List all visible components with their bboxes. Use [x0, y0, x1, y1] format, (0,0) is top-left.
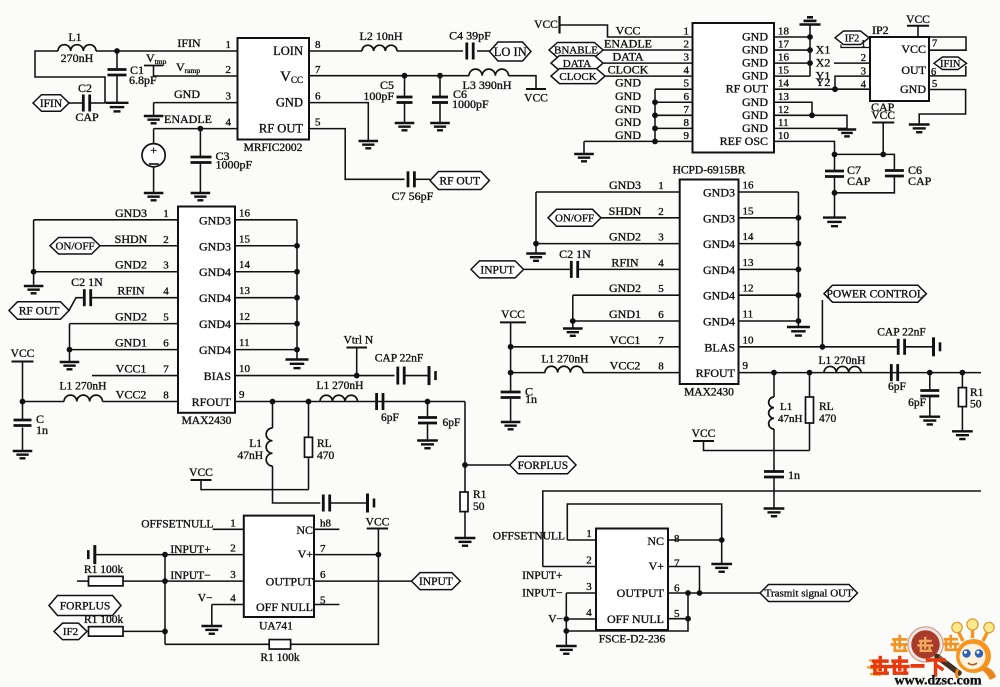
wire C7b bottom [834, 177, 836, 218]
wire U4 pin2 [601, 217, 680, 219]
svg-text:C4 39pF: C4 39pF [449, 29, 491, 43]
port INPUT hexagon out [412, 573, 461, 590]
wire U3 pin6 [70, 349, 179, 351]
wire C7 to hexagon [416, 178, 431, 180]
junction VCC osc [880, 152, 886, 158]
wire C1 stem [116, 51, 118, 70]
svg-text:4: 4 [658, 257, 664, 269]
power VCC flag U5 [366, 517, 390, 529]
svg-text:LO IN: LO IN [494, 45, 527, 59]
svg-text:12: 12 [743, 283, 754, 295]
svg-text:VCC2: VCC2 [610, 359, 641, 373]
svg-text:V−: V− [548, 614, 563, 626]
wire U4 pin7 [511, 346, 680, 348]
svg-text:7: 7 [658, 335, 664, 347]
svg-text:GND1: GND1 [115, 336, 147, 350]
inductor L2 [362, 45, 397, 51]
svg-text:UA741: UA741 [259, 621, 293, 633]
svg-text:INPUT−: INPUT− [170, 570, 210, 582]
wire C3 stem [199, 129, 201, 157]
svg-text:VCC: VCC [534, 19, 558, 31]
svg-text:CAP: CAP [908, 174, 932, 188]
svg-text:GND2: GND2 [609, 230, 641, 244]
svg-text:VCC: VCC [189, 467, 213, 479]
ground C3 [191, 193, 211, 200]
wire U4 gnd2 stem [572, 321, 574, 329]
svg-text:7: 7 [932, 39, 937, 50]
svg-text:100pF: 100pF [363, 89, 394, 103]
ground 6pF U3 [417, 441, 438, 449]
wire VCC drop U3 [22, 362, 24, 402]
svg-text:GND3: GND3 [609, 178, 641, 192]
wire C 1n stem [22, 402, 24, 419]
svg-text:18: 18 [778, 26, 790, 38]
svg-text:4: 4 [230, 593, 236, 605]
junction U4 vcc1 [508, 344, 514, 350]
junction pin18 [807, 34, 813, 40]
svg-text:GND: GND [615, 128, 641, 142]
port BNABLE hexagon [549, 43, 603, 58]
wire U3 pin2 [100, 245, 178, 247]
port IFIN hexagon [33, 95, 69, 112]
svg-text:OFF NULL: OFF NULL [256, 600, 313, 614]
wire U3 pin13 [235, 297, 297, 299]
svg-text:RFOUT: RFOUT [696, 366, 736, 380]
svg-text:6: 6 [658, 309, 664, 321]
inductor L1 [58, 45, 96, 51]
svg-text:GND4: GND4 [199, 317, 231, 331]
junction U4 pin14 [796, 241, 802, 247]
ground C U4 [501, 422, 521, 429]
svg-text:VCC: VCC [901, 42, 926, 56]
svg-text:RL: RL [317, 438, 332, 450]
svg-text:GND4: GND4 [703, 315, 735, 329]
capacitor 6pF shunt U3 [418, 418, 437, 424]
port IFIN hexagon right [934, 57, 967, 70]
wire U5 pin4 gnd [211, 605, 213, 627]
svg-text:GND3: GND3 [703, 186, 735, 200]
wire source to ground [153, 167, 155, 193]
wire CLOCK pin4 [605, 75, 693, 77]
capacitor C6b [885, 171, 904, 177]
junction U4 pin6 [570, 318, 576, 324]
svg-text:V−: V− [198, 593, 213, 605]
svg-text:CLOCK: CLOCK [608, 63, 649, 77]
power VCC flag U4 [500, 309, 526, 322]
wire C6 to ground [439, 103, 441, 124]
power VCC tick [534, 16, 559, 34]
svg-text:13: 13 [743, 257, 755, 269]
junction U3 pin12 [294, 321, 300, 327]
wire 6pF shunt stem U4 [929, 373, 931, 391]
wire gnd drop U2 [583, 141, 585, 154]
svg-text:ON/OFF: ON/OFF [555, 213, 594, 225]
svg-text:CAP: CAP [871, 100, 895, 114]
svg-text:47nH: 47nH [237, 450, 263, 462]
svg-text:4: 4 [586, 607, 592, 619]
svg-text:1000pF: 1000pF [452, 97, 489, 111]
svg-text:9: 9 [743, 360, 749, 372]
junction U6 gnd node [563, 628, 569, 634]
svg-text:15: 15 [778, 65, 790, 77]
svg-text:VCC1: VCC1 [116, 362, 147, 376]
inductor L1 47nH (U4) [769, 397, 774, 429]
voltage source V1 [142, 143, 165, 167]
wire U4 pin15 [739, 217, 799, 219]
wire L47 down [273, 466, 321, 503]
svg-text:GND4: GND4 [703, 263, 735, 277]
svg-text:GND: GND [742, 43, 768, 57]
svg-text:4: 4 [226, 117, 232, 129]
wire VCC rail mid-right [704, 441, 810, 451]
svg-text:CAP 22nF: CAP 22nF [877, 327, 925, 339]
svg-text:3: 3 [861, 67, 866, 78]
wire U3 gnd stem [33, 272, 35, 286]
wire pin9 to ground [584, 140, 693, 142]
svg-text:GND: GND [276, 96, 303, 110]
wire U3 pin3 [34, 271, 178, 273]
svg-text:6pF: 6pF [888, 381, 906, 393]
svg-text:X1: X1 [816, 43, 831, 57]
wire cap to shield [330, 502, 367, 504]
svg-text:L2 10nH: L2 10nH [360, 29, 403, 43]
wire U3 gnd2 stem [69, 350, 71, 362]
svg-text:1n: 1n [788, 468, 800, 482]
svg-text:VCC: VCC [616, 24, 641, 38]
svg-text:INPUT: INPUT [480, 264, 514, 276]
wire U6 pin7 [668, 567, 700, 594]
svg-text:4: 4 [163, 286, 169, 298]
wire R1b to bus [123, 630, 165, 632]
ground C6 [430, 123, 450, 130]
svg-text:8: 8 [684, 117, 690, 129]
svg-text:L1 270nH: L1 270nH [819, 355, 866, 367]
capacitor CAP 22nF U3 [398, 367, 404, 385]
wire pin6 GND [655, 101, 693, 103]
svg-text:VCC: VCC [366, 517, 390, 529]
wire U3 BIAS [235, 375, 395, 377]
resistor R1 50 (U3) [460, 492, 468, 512]
wire U4 pin12 [739, 294, 799, 296]
svg-text:L3 390nH: L3 390nH [463, 78, 512, 92]
wire U4 pin1 drop [535, 192, 537, 244]
wire pin4 to source [153, 129, 155, 144]
ground U3 pin1/3 [24, 286, 44, 293]
junction U6 out a [685, 590, 691, 596]
svg-text:C7 56pF: C7 56pF [392, 189, 434, 203]
ground inverted top [800, 17, 821, 24]
wire U3 pin8 left [23, 401, 65, 403]
port RF OUT hexagon [430, 172, 489, 190]
wire U3 pin5 [70, 323, 179, 325]
ground pin6 U1 [359, 141, 379, 148]
ground pin12 net [838, 130, 856, 137]
IC IP2 [870, 37, 929, 101]
svg-text:VCC: VCC [906, 14, 930, 26]
wire U4 pin3 [536, 243, 680, 245]
wire U6 pin8 gnd [721, 540, 723, 564]
junction RFOUT RL [306, 399, 312, 405]
svg-text:9: 9 [684, 130, 690, 142]
capacitor C4 [467, 43, 473, 60]
svg-text:SHDN: SHDN [609, 204, 642, 218]
svg-text:GND4: GND4 [199, 265, 231, 279]
wire U4 BIAS [739, 346, 899, 348]
svg-text:6: 6 [315, 91, 321, 103]
IC U3 MAX2430 [178, 207, 235, 413]
ground U2 left bus [574, 154, 594, 161]
wire U3 pin12 [235, 323, 297, 325]
svg-text:2: 2 [230, 543, 236, 555]
wire U6 pin8 [668, 539, 722, 541]
wire U5 pin2 [96, 554, 244, 556]
wire U4 pin1 [536, 191, 680, 193]
svg-text:FSCE-D2-236: FSCE-D2-236 [599, 634, 666, 646]
svg-text:9: 9 [239, 389, 245, 401]
svg-text:13: 13 [778, 91, 790, 103]
wire 6pF shunt gnd [427, 423, 429, 441]
ground R1 U4 [952, 431, 973, 439]
wire U6 v57 [687, 593, 689, 619]
svg-text:GND: GND [615, 76, 641, 90]
wire U5 pin1 stub [213, 528, 244, 530]
junction U6 pin4 [563, 616, 569, 622]
wire U6 pin4 down [565, 619, 567, 631]
capacitor CAP 22nF U4 [898, 339, 904, 355]
svg-text:RF OUT: RF OUT [19, 305, 60, 317]
wire Vtmp to pin2 [154, 66, 238, 77]
port LO IN hexagon [490, 42, 532, 61]
svg-text:Trasmit signal OUT: Trasmit signal OUT [765, 588, 853, 600]
junction in- bus [162, 578, 168, 584]
svg-text:GND3: GND3 [703, 211, 735, 225]
wire L47 stem [272, 402, 274, 428]
ground IP2 pin5 [909, 125, 930, 133]
svg-text:V+: V+ [649, 559, 665, 573]
wire U3 pin5 drop [69, 324, 71, 350]
capacitor C2 [83, 95, 89, 112]
ground 6pF U4 [919, 417, 940, 425]
op-amp/IC U1 MRFIC2002 [238, 38, 310, 140]
node junction C6 [437, 73, 443, 79]
svg-text:6: 6 [320, 569, 326, 581]
inductor L1 270nH (out U4) [824, 366, 861, 372]
svg-text:8: 8 [658, 361, 664, 373]
wire U4 pin13 [739, 268, 799, 270]
svg-text:FORPLUS: FORPLUS [60, 600, 111, 612]
wire C2b to pin4 [91, 297, 178, 299]
svg-text:L1 270nH: L1 270nH [60, 381, 107, 393]
wire U3 pin1 [34, 219, 178, 221]
svg-text:3: 3 [230, 569, 236, 581]
wire R1 to gnd [464, 512, 466, 538]
ground pin3 [144, 116, 164, 123]
svg-text:14: 14 [239, 259, 251, 271]
wire VCC drop U5 [377, 529, 379, 555]
svg-text:GND4: GND4 [199, 291, 231, 305]
svg-text:2: 2 [586, 555, 592, 567]
svg-text:GND2: GND2 [609, 281, 641, 295]
wire pin6 GND [309, 103, 368, 141]
svg-text:R1 100k: R1 100k [84, 614, 124, 626]
wire U3 pin14 [235, 271, 297, 273]
svg-text:BLAS: BLAS [704, 340, 735, 354]
svg-text:13: 13 [239, 285, 251, 297]
wire C to gnd [22, 428, 24, 452]
junction U6 pin5 [685, 616, 691, 622]
wire U4 right bus [797, 192, 799, 321]
svg-text:2: 2 [658, 206, 664, 218]
wire RFOUT to C2b [69, 298, 83, 311]
junction 6pF shunt [425, 399, 431, 405]
svg-text:GND4: GND4 [199, 343, 231, 357]
svg-text:12: 12 [239, 311, 250, 323]
wire VCC to rail [882, 123, 884, 155]
svg-text:10: 10 [743, 334, 755, 346]
wire cap to sgnd U4 [905, 346, 933, 348]
wire C6 stem [439, 76, 441, 97]
svg-text:C2 1N: C2 1N [71, 275, 103, 289]
ground U3 bus [286, 360, 309, 369]
svg-text:OFFSETNULL: OFFSETNULL [493, 531, 565, 543]
capacitor C3 [191, 157, 212, 163]
svg-text:CAP: CAP [75, 110, 99, 124]
wire U5 pin3 [123, 580, 244, 582]
wire IF2 pin1 [841, 45, 870, 48]
resistor RL 470 (U4) [806, 397, 814, 423]
svg-text:GND: GND [742, 69, 768, 83]
svg-text:INPUT+: INPUT+ [522, 570, 562, 582]
resistor RL 470 (U3) [305, 437, 313, 457]
wire U6 pin1 [567, 539, 596, 541]
capacitor C2 1N (U4) [571, 261, 577, 278]
wire cap to sgnd [405, 375, 429, 377]
svg-text:8: 8 [163, 390, 169, 402]
wire input bus [164, 555, 166, 645]
wire C2 to loop [90, 102, 105, 104]
port POWER CONTROL hexagon [824, 285, 926, 302]
svg-text:h8: h8 [320, 518, 332, 530]
junction 6pF shunt U4 [927, 370, 933, 376]
node junction C5 [402, 73, 408, 79]
svg-text:1: 1 [586, 528, 592, 540]
svg-text:CLOCK: CLOCK [559, 71, 596, 83]
junction RFOUT RL U4 [807, 370, 813, 376]
svg-text:OFFSETNULL: OFFSETNULL [141, 519, 213, 531]
wire pin16 [774, 62, 810, 64]
wire 6pF shunt gnd U4 [929, 396, 931, 417]
wire L47 stem U4 [773, 373, 775, 397]
svg-text:C2 1N: C2 1N [559, 247, 591, 261]
svg-text:2: 2 [861, 53, 866, 64]
IC U2 (18-pin RF) [693, 23, 775, 153]
wire U3 pin8 right [103, 401, 179, 403]
wire U6 pin3 [566, 592, 596, 594]
ground U3 pin5/6 [60, 362, 80, 369]
svg-text:50: 50 [970, 399, 982, 411]
svg-text:BIAS: BIAS [204, 369, 231, 383]
wire pin5 RF OUT [309, 129, 405, 180]
capacitor 1n bottom [764, 472, 784, 478]
port IF2 hexagon 2 [54, 623, 87, 640]
svg-text:Vtrl N: Vtrl N [344, 335, 374, 347]
port ON/OFF hexagon U4 [548, 209, 601, 226]
svg-text:OUTPUT: OUTPUT [617, 586, 665, 600]
svg-text:3: 3 [658, 232, 664, 244]
svg-text:IP2: IP2 [872, 23, 889, 37]
wire IP2 pin3 stub [835, 76, 870, 89]
svg-text:DATA: DATA [612, 50, 643, 64]
svg-text:GND: GND [742, 56, 768, 70]
wire U5 pin6 OUTPUT [314, 580, 412, 582]
port IF2 hexagon [835, 31, 869, 45]
wire xtal bus [809, 25, 811, 77]
wire U4 pin11 [739, 320, 799, 322]
ground U6 pin8 [711, 564, 732, 572]
svg-text:1000pF: 1000pF [216, 158, 253, 172]
svg-text:IFIN: IFIN [40, 98, 63, 110]
wire U3 right bus [296, 220, 298, 350]
svg-text:47nH: 47nH [778, 413, 803, 425]
wire U4 RFOUT [739, 372, 982, 374]
svg-text:X2: X2 [816, 56, 831, 70]
junction U4 pin3 [533, 241, 539, 247]
svg-text:16: 16 [239, 207, 251, 219]
svg-text:6pF: 6pF [908, 397, 926, 409]
wire C4 to LO IN [477, 50, 490, 52]
wire pin7 GND [655, 114, 693, 116]
junction U4 vcc2 [508, 370, 514, 376]
wire U4 pin8 right [583, 372, 680, 374]
port FORPLUS hexagon [510, 456, 576, 474]
power VCC flag mid-left [189, 467, 213, 480]
wire pin3 GND [154, 102, 238, 104]
wire input loop [35, 51, 105, 103]
wire pin6 to IFIN [929, 66, 966, 76]
shield ground input+ [88, 545, 95, 564]
svg-text:IF2: IF2 [845, 33, 860, 44]
inductor L1 47nH (U3) [266, 428, 272, 466]
junction Vtrl [354, 373, 360, 379]
wire VCC to IP2 top [917, 26, 919, 37]
wire U5 pin5 stub [314, 604, 339, 606]
svg-text:R1: R1 [473, 489, 487, 501]
junction U3 pin3 [31, 269, 37, 275]
power VCC flag mid-right [692, 428, 716, 441]
wire RFOUT to FORPLUS [465, 402, 510, 465]
wire osc rail [835, 154, 895, 170]
svg-text:3: 3 [586, 581, 592, 593]
port FORPLUS hexagon 2 [49, 596, 121, 616]
wire U6 bottom rail [566, 619, 688, 631]
wire pin4 ENADLE [154, 128, 238, 130]
wire C5 to ground [404, 103, 406, 124]
svg-text:1n: 1n [36, 423, 48, 437]
watermark dzsc logo [867, 619, 996, 687]
svg-text:REF OSC: REF OSC [720, 134, 768, 148]
svg-text:270nH: 270nH [61, 51, 94, 65]
capacitor 6pF series U3 [377, 393, 383, 410]
junction pin12 [809, 112, 815, 118]
wire U6 pin5 [668, 618, 688, 620]
svg-text:15: 15 [239, 233, 251, 245]
svg-text:5: 5 [684, 78, 690, 90]
wire U6 pin2 [543, 566, 597, 568]
junction U4 pin15 [796, 215, 802, 221]
svg-text:www.dzsc.com: www.dzsc.com [894, 674, 981, 687]
wire C6b return [835, 176, 895, 193]
svg-text:GND3: GND3 [199, 239, 231, 253]
